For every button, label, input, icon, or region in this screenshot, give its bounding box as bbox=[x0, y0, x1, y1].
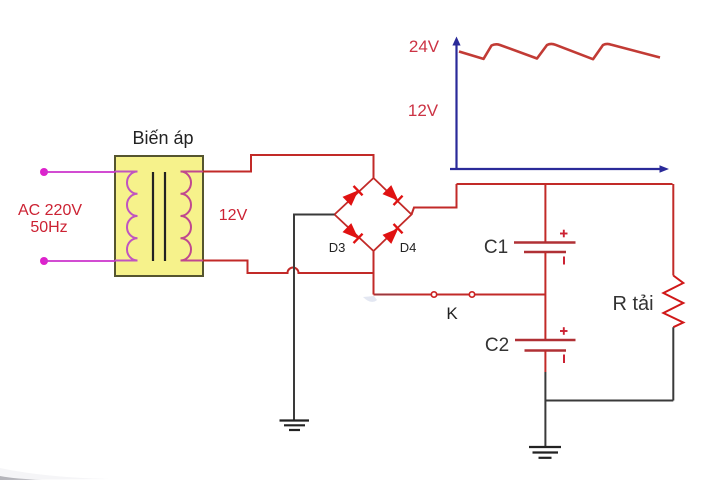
svg-text:D3: D3 bbox=[329, 240, 346, 255]
wire AC top to primary bbox=[44, 171, 115, 173]
wire bridge right vertex to top rail bbox=[412, 184, 457, 215]
diode D4 (bottom-right, cathode right vertex) bbox=[382, 224, 403, 244]
svg-text:12V: 12V bbox=[408, 101, 439, 120]
axis arrow up bbox=[452, 37, 460, 46]
ground GND2 bbox=[529, 447, 561, 458]
svg-text:Biến áp: Biến áp bbox=[132, 128, 193, 148]
svg-text:AC 220V: AC 220V bbox=[18, 202, 82, 219]
wire switch rail bbox=[374, 294, 546, 296]
wire switch rail to C2 bbox=[544, 295, 546, 341]
AC terminal node bottom bbox=[40, 257, 48, 265]
diode D2 (top-right, cathode right vertex) bbox=[382, 185, 403, 205]
diode D1 (left-top, anode left vertex) bbox=[342, 186, 363, 206]
junction artifact smudge bbox=[363, 296, 377, 302]
wire secondary bottom to bridge bottom (with hop) bbox=[203, 261, 374, 274]
svg-text:C1: C1 bbox=[484, 237, 508, 258]
resistor bottom lead (black) bbox=[672, 327, 674, 400]
wire AC bottom to primary bbox=[44, 260, 115, 262]
svg-text:D4: D4 bbox=[400, 240, 417, 255]
C2 polarity minus bbox=[563, 355, 565, 364]
C1 polarity plus bbox=[560, 230, 568, 238]
transformer secondary winding bbox=[181, 172, 204, 261]
load resistor R tai lead top bbox=[672, 184, 674, 276]
svg-text:50Hz: 50Hz bbox=[30, 219, 67, 236]
transformer core bbox=[152, 172, 154, 261]
transformer T1 body bbox=[115, 156, 203, 276]
C2 polarity plus bbox=[560, 327, 568, 335]
svg-text:C2: C2 bbox=[485, 335, 509, 356]
axis arrow right bbox=[660, 165, 670, 173]
wire to ground GND2 bbox=[544, 372, 546, 447]
wire C2 down (red then black) bbox=[544, 351, 546, 373]
resistor R tai zigzag bbox=[663, 276, 683, 328]
top rail +24V bbox=[457, 183, 673, 185]
transformer primary winding bbox=[115, 172, 138, 261]
wire secondary top to bridge top bbox=[203, 155, 374, 178]
waveform axis horizontal bbox=[450, 168, 661, 170]
AC terminal node top bbox=[40, 168, 48, 176]
svg-text:K: K bbox=[446, 304, 458, 323]
wire C1 to switch rail bbox=[544, 252, 546, 295]
capacitor C2 bbox=[515, 340, 576, 351]
wire bridge left vertex to ground (black) bbox=[294, 215, 335, 421]
switch K contact right bbox=[469, 292, 474, 297]
wire top rail to C1 bbox=[544, 184, 546, 243]
waveform axis vertical bbox=[455, 44, 457, 169]
C1 polarity minus bbox=[563, 257, 565, 265]
svg-text:24V: 24V bbox=[409, 37, 440, 56]
bottom return wire (black) bbox=[545, 400, 673, 402]
wire bridge bottom vertex down bbox=[373, 251, 375, 295]
ground GND1 bbox=[280, 421, 310, 431]
capacitor C1 bbox=[514, 243, 576, 253]
svg-text:R tải: R tải bbox=[612, 293, 653, 315]
page curl mark bottom-left bbox=[0, 468, 110, 480]
diode bridge frame bbox=[335, 178, 412, 251]
diode D3 (left-bottom, anode left vertex) bbox=[342, 223, 363, 243]
switch K contact left bbox=[431, 292, 436, 297]
svg-text:12V: 12V bbox=[219, 207, 248, 224]
ripple waveform bbox=[459, 44, 660, 59]
